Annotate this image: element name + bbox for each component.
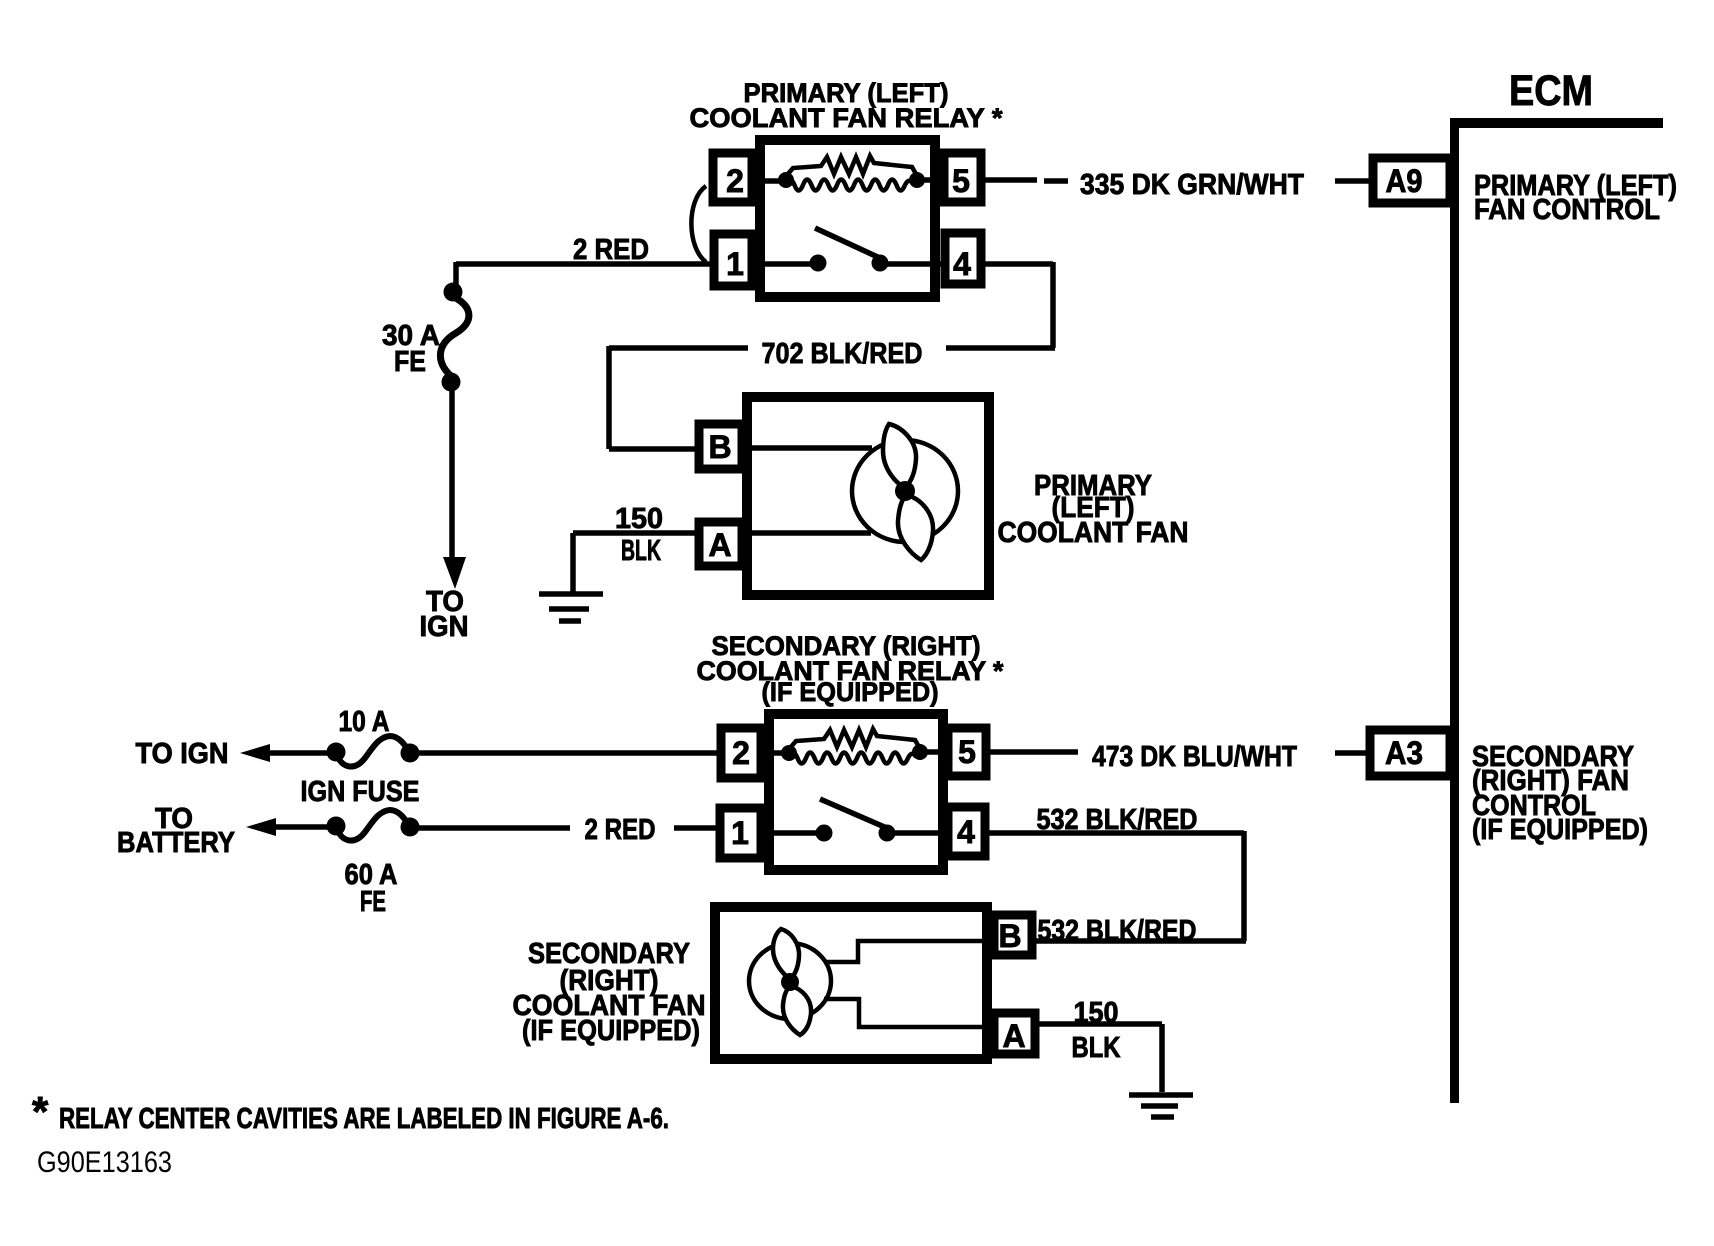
svg-text:G90E13163: G90E13163 <box>37 1146 172 1179</box>
svg-text:ECM: ECM <box>1509 67 1593 115</box>
svg-text:IGN FUSE: IGN FUSE <box>301 776 420 808</box>
svg-text:A9: A9 <box>1386 163 1423 199</box>
svg-text:*: * <box>32 1088 49 1135</box>
svg-text:A: A <box>708 527 731 563</box>
svg-text:4: 4 <box>953 246 971 282</box>
svg-text:COOLANT FAN RELAY *: COOLANT FAN RELAY * <box>690 103 1003 133</box>
svg-text:2: 2 <box>726 163 744 199</box>
svg-text:BLK: BLK <box>621 535 661 567</box>
svg-text:335 DK GRN/WHT: 335 DK GRN/WHT <box>1080 169 1304 201</box>
svg-text:2: 2 <box>732 735 750 771</box>
svg-text:IGN: IGN <box>420 611 469 643</box>
svg-text:702 BLK/RED: 702 BLK/RED <box>762 338 923 370</box>
svg-text:5: 5 <box>958 734 976 770</box>
svg-text:532 BLK/RED: 532 BLK/RED <box>1038 915 1197 947</box>
svg-text:(IF EQUIPPED): (IF EQUIPPED) <box>1472 814 1648 846</box>
svg-text:BATTERY: BATTERY <box>117 827 235 859</box>
svg-text:B: B <box>708 429 731 465</box>
svg-text:BLK: BLK <box>1072 1032 1121 1064</box>
svg-text:A: A <box>1002 1018 1025 1054</box>
svg-text:2 RED: 2 RED <box>585 814 656 846</box>
svg-text:(IF EQUIPPED): (IF EQUIPPED) <box>522 1015 700 1047</box>
svg-text:10 A: 10 A <box>339 706 390 738</box>
svg-text:2 RED: 2 RED <box>573 234 649 266</box>
svg-text:RELAY CENTER CAVITIES ARE LABE: RELAY CENTER CAVITIES ARE LABELED IN FIG… <box>59 1103 669 1135</box>
svg-text:TO IGN: TO IGN <box>136 738 229 770</box>
svg-text:A3: A3 <box>1385 735 1423 771</box>
svg-text:(IF EQUIPPED): (IF EQUIPPED) <box>762 677 939 707</box>
svg-text:1: 1 <box>731 815 749 851</box>
svg-text:FAN CONTROL: FAN CONTROL <box>1474 194 1660 226</box>
svg-text:FE: FE <box>360 886 386 918</box>
svg-text:FE: FE <box>394 346 426 378</box>
svg-text:5: 5 <box>952 163 970 199</box>
svg-text:COOLANT FAN: COOLANT FAN <box>998 517 1189 549</box>
svg-text:150: 150 <box>615 503 663 535</box>
svg-text:1: 1 <box>726 246 744 282</box>
svg-text:B: B <box>998 918 1021 954</box>
svg-text:473 DK BLU/WHT: 473 DK BLU/WHT <box>1092 741 1297 773</box>
svg-text:4: 4 <box>957 814 975 850</box>
